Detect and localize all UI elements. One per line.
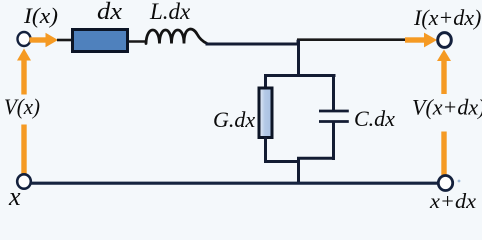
terminal node (input current, top left) <box>18 32 31 46</box>
wire (top bar of parallel branch) <box>264 74 336 77</box>
wire (center junction down to bottom rail) <box>297 158 300 184</box>
svg-text:x: x <box>8 182 21 210</box>
wire (inductor to center junction) <box>206 40 299 44</box>
stray mark (small dot right of bottom-right node) <box>458 180 461 183</box>
wire (left branch down to conductance) <box>264 74 267 89</box>
svg-text:dx: dx <box>97 0 122 25</box>
capacitor C.dx bottom plate <box>319 120 349 123</box>
wire (conductance to bottom bar) <box>264 137 267 163</box>
current arrow I(x+dx) <box>405 33 437 48</box>
svg-text:I(x+dx): I(x+dx) <box>413 5 481 30</box>
wire (resistor to inductor) <box>129 40 147 43</box>
terminal node x (bottom left) <box>17 174 31 188</box>
wire (bottom bar right half) <box>297 157 335 160</box>
wire (capacitor to bottom bar) <box>332 122 335 161</box>
voltage arrow V(x) upper shaft <box>21 58 26 95</box>
current arrow I(x) <box>30 33 59 47</box>
wire (circle to resistor) <box>57 39 71 42</box>
voltage arrow V(x) lower shaft <box>21 125 26 175</box>
inductor L.dx <box>146 29 207 43</box>
svg-text:G.dx: G.dx <box>213 107 255 132</box>
voltage arrow V(x+dx) lower shaft <box>441 132 446 176</box>
wire (right branch down to capacitor) <box>332 74 335 110</box>
wire (shunt branch vertical from top rail) <box>297 40 300 76</box>
svg-text:L.dx: L.dx <box>149 0 191 24</box>
terminal node (output current, top right) <box>438 33 452 48</box>
capacitor C.dx top plate <box>319 110 349 113</box>
wire (bottom rail) <box>31 182 438 185</box>
voltage arrow V(x) head <box>17 49 31 61</box>
svg-text:x+dx: x+dx <box>429 189 477 210</box>
svg-text:V(x+dx): V(x+dx) <box>412 95 482 120</box>
voltage arrow V(x+dx) head <box>437 50 451 62</box>
svg-text:V(x): V(x) <box>4 94 40 119</box>
terminal node x+dx (bottom right) <box>438 176 452 191</box>
svg-text:I(x): I(x) <box>23 3 58 28</box>
wire (bottom bar left half) <box>264 160 300 163</box>
wire (center junction to right arrow) <box>297 38 410 41</box>
resistor (series impedance) value dx <box>73 30 128 52</box>
voltage arrow V(x+dx) upper shaft <box>441 59 446 95</box>
svg-text:C.dx: C.dx <box>354 106 395 131</box>
